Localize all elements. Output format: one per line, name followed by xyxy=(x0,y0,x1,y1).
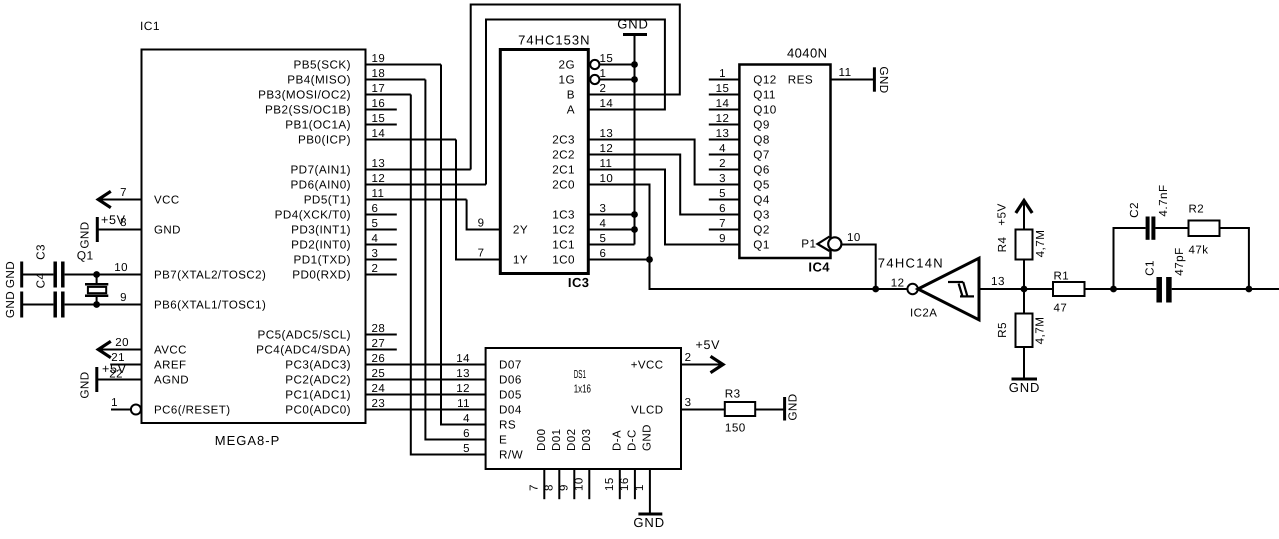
svg-text:20: 20 xyxy=(115,337,129,349)
svg-text:D06: D06 xyxy=(499,374,522,387)
svg-text:Q7: Q7 xyxy=(753,149,770,162)
svg-text:GND: GND xyxy=(79,371,92,398)
svg-text:AGND: AGND xyxy=(154,375,189,387)
svg-text:PD4(XCK/T0): PD4(XCK/T0) xyxy=(275,209,351,222)
svg-text:47k: 47k xyxy=(1189,245,1209,257)
svg-text:GND: GND xyxy=(641,424,653,451)
svg-text:RS: RS xyxy=(499,419,516,432)
svg-text:D02: D02 xyxy=(566,429,578,451)
svg-text:IC4: IC4 xyxy=(808,260,830,275)
svg-text:R2: R2 xyxy=(1189,204,1205,216)
svg-text:11: 11 xyxy=(600,158,613,170)
svg-text:PB6(XTAL1/TOSC1): PB6(XTAL1/TOSC1) xyxy=(154,300,266,312)
svg-text:4,7M: 4,7M xyxy=(1034,230,1047,258)
svg-text:D00: D00 xyxy=(536,429,548,451)
svg-text:1x16: 1x16 xyxy=(574,383,591,396)
svg-text:PC3(ADC3): PC3(ADC3) xyxy=(285,359,351,372)
svg-text:PD7(AIN1): PD7(AIN1) xyxy=(290,164,351,177)
svg-text:17: 17 xyxy=(372,83,386,95)
svg-text:9: 9 xyxy=(478,218,485,230)
svg-text:10: 10 xyxy=(847,232,861,244)
svg-text:4: 4 xyxy=(719,143,726,155)
svg-text:1G: 1G xyxy=(559,74,576,87)
svg-text:4,7M: 4,7M xyxy=(1034,317,1047,345)
svg-text:PB0(ICP): PB0(ICP) xyxy=(298,134,351,147)
svg-text:GND: GND xyxy=(154,225,181,237)
svg-text:6: 6 xyxy=(600,248,607,260)
svg-text:Q10: Q10 xyxy=(753,104,776,117)
svg-text:Q5: Q5 xyxy=(753,179,770,192)
svg-text:1: 1 xyxy=(111,397,118,409)
svg-text:PD6(AIN0): PD6(AIN0) xyxy=(290,179,351,192)
svg-text:16: 16 xyxy=(372,98,386,110)
svg-text:7: 7 xyxy=(478,248,485,260)
svg-text:PB1(OC1A): PB1(OC1A) xyxy=(285,119,351,132)
svg-text:PB5(SCK): PB5(SCK) xyxy=(293,59,351,72)
svg-text:PC6(/RESET): PC6(/RESET) xyxy=(154,405,231,417)
svg-text:DS1: DS1 xyxy=(574,368,586,381)
svg-text:11: 11 xyxy=(839,66,852,79)
svg-text:Q1: Q1 xyxy=(753,239,770,252)
svg-text:R3: R3 xyxy=(725,388,741,401)
svg-text:12: 12 xyxy=(716,113,730,125)
svg-text:MEGA8-P: MEGA8-P xyxy=(215,433,281,448)
svg-text:PD2(INT0): PD2(INT0) xyxy=(291,239,351,252)
svg-text:Q4: Q4 xyxy=(753,194,770,207)
svg-text:5: 5 xyxy=(600,233,607,245)
svg-text:23: 23 xyxy=(372,398,386,410)
svg-text:14: 14 xyxy=(456,353,470,365)
svg-text:150: 150 xyxy=(725,422,746,435)
svg-text:2: 2 xyxy=(719,158,726,170)
svg-text:74HC153N: 74HC153N xyxy=(518,32,590,47)
svg-text:12: 12 xyxy=(456,383,470,395)
svg-text:4: 4 xyxy=(372,233,379,245)
svg-text:2: 2 xyxy=(600,83,607,95)
svg-text:Q2: Q2 xyxy=(753,224,770,237)
svg-text:7: 7 xyxy=(528,484,540,491)
svg-text:4040N: 4040N xyxy=(787,46,828,61)
svg-text:5: 5 xyxy=(463,443,470,455)
svg-text:26: 26 xyxy=(372,353,386,365)
svg-text:6: 6 xyxy=(463,428,470,440)
svg-text:3: 3 xyxy=(600,203,607,215)
svg-text:7: 7 xyxy=(719,218,726,230)
svg-text:9: 9 xyxy=(558,484,570,491)
svg-text:14: 14 xyxy=(372,128,386,140)
svg-text:15: 15 xyxy=(604,477,616,491)
svg-text:PD5(T1): PD5(T1) xyxy=(304,194,351,207)
svg-text:AREF: AREF xyxy=(154,360,186,372)
svg-text:14: 14 xyxy=(716,98,730,110)
svg-text:R1: R1 xyxy=(1054,271,1070,283)
svg-text:7: 7 xyxy=(120,187,127,199)
svg-text:PD1(TXD): PD1(TXD) xyxy=(294,254,352,267)
svg-text:11: 11 xyxy=(457,398,470,410)
svg-text:AVCC: AVCC xyxy=(154,345,187,357)
svg-text:PB3(MOSI/OC2): PB3(MOSI/OC2) xyxy=(258,89,351,102)
svg-text:PC5(ADC5/SCL): PC5(ADC5/SCL) xyxy=(257,329,351,342)
svg-text:12: 12 xyxy=(600,143,614,155)
svg-text:25: 25 xyxy=(372,368,386,380)
svg-text:+5V: +5V xyxy=(102,362,127,376)
svg-text:A: A xyxy=(567,104,575,117)
svg-text:GND: GND xyxy=(617,17,649,32)
svg-text:D07: D07 xyxy=(499,359,522,372)
svg-text:PB2(SS/OC1B): PB2(SS/OC1B) xyxy=(265,104,351,117)
svg-text:GND: GND xyxy=(787,393,800,420)
svg-text:GND: GND xyxy=(633,515,665,530)
svg-text:27: 27 xyxy=(372,338,386,350)
svg-text:PB4(MISO): PB4(MISO) xyxy=(287,74,351,87)
svg-text:3: 3 xyxy=(685,397,692,409)
svg-text:13: 13 xyxy=(600,128,614,140)
svg-text:12: 12 xyxy=(372,173,386,185)
svg-text:15: 15 xyxy=(716,83,730,95)
svg-text:+5V: +5V xyxy=(996,203,1009,225)
svg-text:GND: GND xyxy=(1009,380,1041,395)
svg-text:13: 13 xyxy=(372,158,386,170)
svg-text:10: 10 xyxy=(114,262,128,274)
svg-text:PD3(INT1): PD3(INT1) xyxy=(291,224,351,237)
svg-text:1C3: 1C3 xyxy=(552,209,575,222)
svg-text:+5V: +5V xyxy=(101,213,126,227)
svg-text:3: 3 xyxy=(719,173,726,185)
svg-text:IC3: IC3 xyxy=(568,275,590,290)
svg-text:GND: GND xyxy=(4,261,17,288)
svg-text:9: 9 xyxy=(120,292,127,304)
svg-text:2C0: 2C0 xyxy=(552,179,575,192)
svg-text:PC2(ADC2): PC2(ADC2) xyxy=(285,374,351,387)
svg-text:1: 1 xyxy=(719,68,726,80)
svg-text:IC2A: IC2A xyxy=(910,308,937,320)
svg-text:2G: 2G xyxy=(559,59,576,72)
svg-text:18: 18 xyxy=(372,68,386,80)
svg-text:Q1: Q1 xyxy=(77,249,94,263)
svg-text:15: 15 xyxy=(600,53,614,65)
svg-text:13: 13 xyxy=(716,128,730,140)
svg-text:11: 11 xyxy=(372,188,385,200)
svg-text:PC4(ADC4/SDA): PC4(ADC4/SDA) xyxy=(256,344,351,357)
svg-text:R4: R4 xyxy=(996,237,1009,253)
svg-text:C2: C2 xyxy=(1128,202,1141,218)
svg-text:2C3: 2C3 xyxy=(552,134,575,147)
svg-text:1C1: 1C1 xyxy=(552,239,575,252)
svg-text:4: 4 xyxy=(600,218,607,230)
svg-text:B: B xyxy=(567,89,575,102)
svg-text:1C0: 1C0 xyxy=(552,254,575,267)
svg-text:2C2: 2C2 xyxy=(552,149,575,162)
svg-text:6: 6 xyxy=(719,203,726,215)
svg-text:PB7(XTAL2/TOSC2): PB7(XTAL2/TOSC2) xyxy=(154,270,266,282)
svg-text:R5: R5 xyxy=(996,322,1009,338)
svg-text:D04: D04 xyxy=(499,404,522,417)
svg-text:D01: D01 xyxy=(551,429,563,451)
svg-text:P1: P1 xyxy=(801,238,816,251)
svg-text:13: 13 xyxy=(456,368,470,380)
svg-text:47: 47 xyxy=(1054,303,1068,315)
svg-text:19: 19 xyxy=(372,53,386,65)
svg-text:Q8: Q8 xyxy=(753,134,770,147)
svg-text:2C1: 2C1 xyxy=(552,164,575,177)
svg-text:1C2: 1C2 xyxy=(552,224,575,237)
svg-text:C3: C3 xyxy=(35,244,48,260)
svg-text:13: 13 xyxy=(991,275,1005,288)
svg-text:1: 1 xyxy=(634,484,646,491)
svg-text:1: 1 xyxy=(600,68,607,80)
svg-text:9: 9 xyxy=(719,233,726,245)
svg-text:D-C: D-C xyxy=(626,429,638,451)
svg-text:14: 14 xyxy=(600,98,614,110)
svg-text:GND: GND xyxy=(877,66,890,93)
svg-text:C4: C4 xyxy=(35,273,48,289)
svg-text:GND: GND xyxy=(4,291,17,318)
svg-text:IC1: IC1 xyxy=(140,19,160,33)
svg-text:15: 15 xyxy=(372,113,386,125)
svg-text:5: 5 xyxy=(719,188,726,200)
svg-text:+VCC: +VCC xyxy=(631,360,664,372)
svg-text:PD0(RXD): PD0(RXD) xyxy=(292,269,351,282)
svg-text:Q6: Q6 xyxy=(753,164,770,177)
svg-text:+5V: +5V xyxy=(696,338,721,352)
svg-text:2: 2 xyxy=(685,352,692,364)
svg-text:16: 16 xyxy=(619,477,631,491)
svg-text:D-A: D-A xyxy=(611,430,623,451)
svg-text:74HC14N: 74HC14N xyxy=(878,255,944,270)
svg-text:VCC: VCC xyxy=(154,195,180,207)
svg-text:VLCD: VLCD xyxy=(631,405,663,417)
svg-text:12: 12 xyxy=(891,278,905,290)
svg-text:47pF: 47pF xyxy=(1173,247,1186,275)
svg-text:RES: RES xyxy=(788,74,813,87)
svg-text:PC1(ADC1): PC1(ADC1) xyxy=(285,389,351,402)
svg-text:GND: GND xyxy=(79,221,92,248)
svg-text:PC0(ADC0): PC0(ADC0) xyxy=(285,404,351,417)
svg-text:Q9: Q9 xyxy=(753,119,770,132)
svg-text:1Y: 1Y xyxy=(513,254,528,267)
svg-text:5: 5 xyxy=(372,218,379,230)
svg-text:10: 10 xyxy=(573,477,585,491)
svg-text:Q11: Q11 xyxy=(753,89,776,102)
svg-text:28: 28 xyxy=(372,323,386,335)
svg-text:Q3: Q3 xyxy=(753,209,770,222)
svg-text:8: 8 xyxy=(543,484,555,491)
svg-text:R/W: R/W xyxy=(499,449,523,462)
svg-text:2: 2 xyxy=(372,263,379,275)
svg-text:3: 3 xyxy=(372,248,379,260)
svg-text:2Y: 2Y xyxy=(513,224,528,237)
svg-text:6: 6 xyxy=(372,203,379,215)
svg-text:Q12: Q12 xyxy=(753,74,776,87)
svg-text:E: E xyxy=(499,434,507,447)
svg-text:4: 4 xyxy=(463,413,470,425)
svg-text:C1: C1 xyxy=(1144,260,1157,276)
svg-text:D05: D05 xyxy=(499,389,522,402)
svg-text:4.7nF: 4.7nF xyxy=(1157,184,1170,216)
svg-text:10: 10 xyxy=(600,173,614,185)
svg-text:D03: D03 xyxy=(581,429,593,451)
svg-text:24: 24 xyxy=(372,383,386,395)
